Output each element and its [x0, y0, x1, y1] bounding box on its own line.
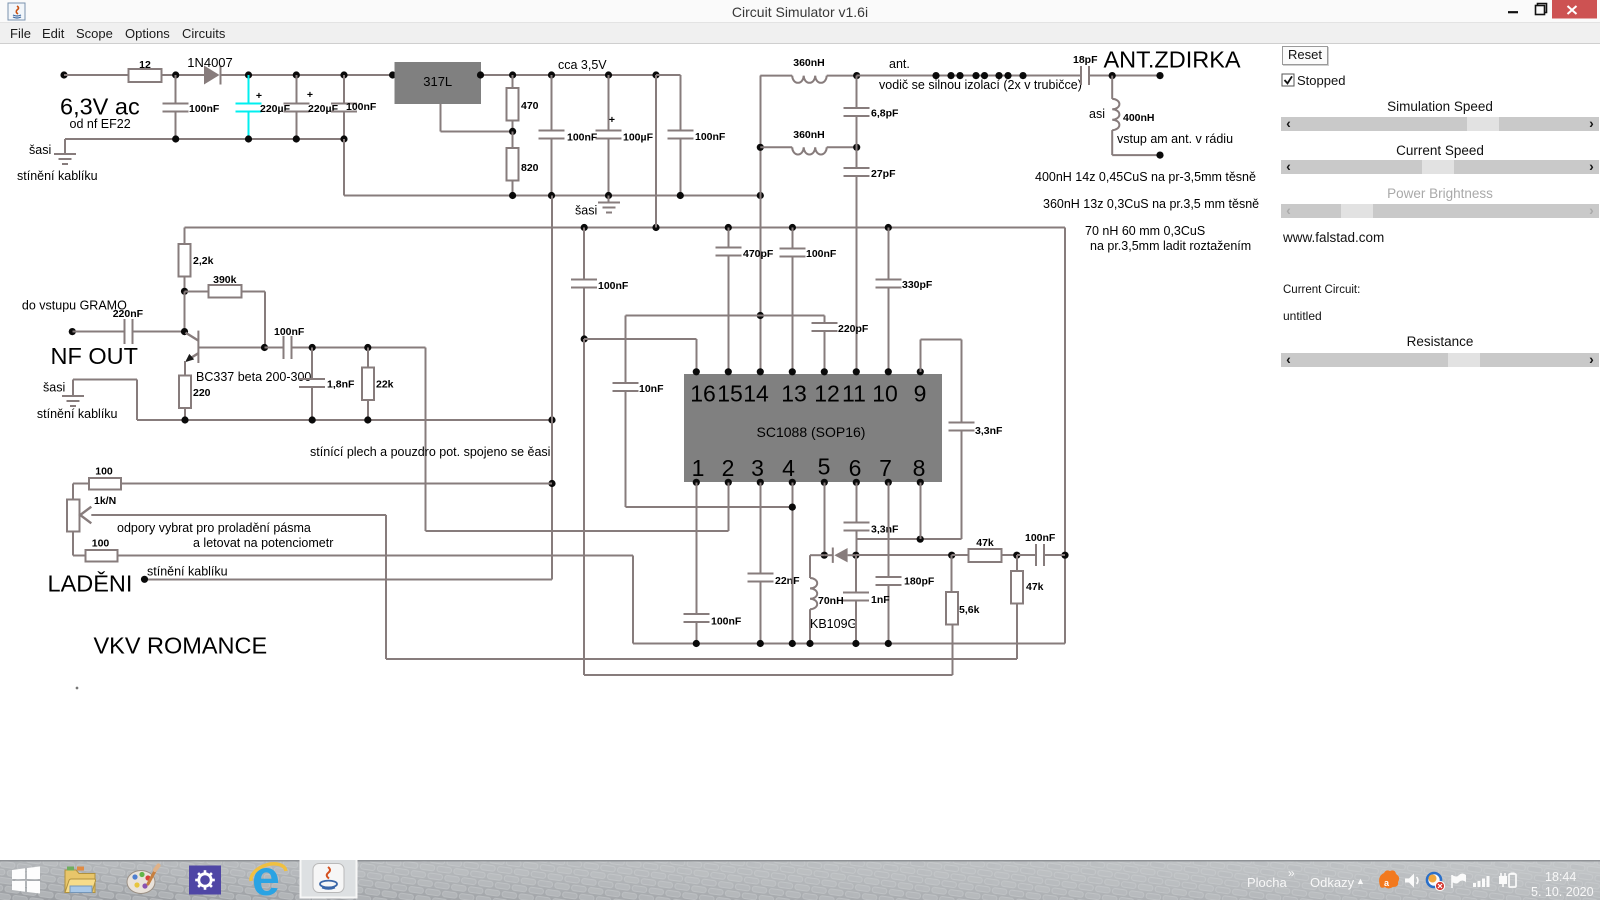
svg-text:12: 12: [139, 59, 151, 71]
svg-text:47k: 47k: [976, 537, 994, 549]
tray icon network bars: [1473, 876, 1490, 887]
svg-text:100nF: 100nF: [711, 616, 742, 628]
svg-text:vstup am ant. v rádiu: vstup am ant. v rádiu: [1117, 132, 1233, 146]
svg-text:LADĚNI: LADĚNI: [48, 571, 133, 597]
svg-text:stínění kablíku: stínění kablíku: [37, 407, 118, 421]
resistor 220 emitter: [179, 376, 211, 420]
capacitor 100nF rail bypass: [539, 75, 598, 196]
stray mark: [76, 687, 79, 690]
svg-text:330pF: 330pF: [902, 279, 933, 291]
node collector junction: [261, 344, 268, 351]
resistor 22k: [362, 348, 394, 421]
ground sasi input: [17, 139, 98, 183]
taskbar icon internet explorer: [251, 850, 286, 905]
svg-text:na pr.3,5mm ladit roztažením: na pr.3,5mm ladit roztažením: [1090, 239, 1251, 253]
wire diode to 317L input: [221, 71, 396, 78]
svg-text:470: 470: [521, 100, 539, 112]
taskbar: [0, 860, 1600, 900]
svg-text:10: 10: [872, 381, 898, 407]
capacitor 220pF: [811, 323, 869, 372]
capacitor 100nF third: [331, 75, 377, 139]
capacitor 100nF pin1: [683, 482, 742, 643]
svg-text:13: 13: [781, 381, 807, 407]
svg-text:5,6k: 5,6k: [959, 604, 980, 616]
tray icon avast: [1379, 870, 1399, 888]
svg-text:cca 3,5V: cca 3,5V: [558, 58, 607, 72]
capacitor 100nF output: [1017, 532, 1065, 566]
svg-text:6: 6: [849, 455, 862, 481]
resistor 47k first: [952, 537, 1021, 562]
capacitor 100nF input: [163, 75, 220, 139]
svg-text:400nH: 400nH: [1123, 112, 1155, 124]
wire pin2 to transistor out: [426, 348, 729, 532]
wire mid ground rail y195: [344, 139, 764, 199]
svg-text:1nF: 1nF: [871, 594, 890, 606]
svg-text:12: 12: [814, 381, 840, 407]
svg-text:22k: 22k: [376, 379, 394, 391]
svg-text:360nH: 360nH: [793, 129, 825, 141]
tray icon update circle: [1427, 873, 1445, 891]
resistor 2,2k: [179, 244, 214, 295]
taskbar icon settings tile: [189, 866, 221, 895]
svg-text:stínění kablíku: stínění kablíku: [17, 169, 98, 183]
svg-text:220: 220: [193, 387, 211, 399]
wire rail corner to 100nF: [656, 75, 680, 131]
capacitor 100nF coupling: [265, 326, 426, 359]
svg-text:100µF: 100µF: [623, 132, 654, 144]
svg-text:1k/N: 1k/N: [94, 495, 116, 507]
svg-text:100nF: 100nF: [598, 280, 629, 292]
wire pin9 loop: [920, 340, 961, 423]
svg-text:šasi: šasi: [43, 381, 65, 395]
node NF OUT terminal: [22, 299, 138, 370]
potentiometer 1k/N: [67, 484, 116, 556]
resistor 820: [507, 131, 539, 195]
svg-text:11: 11: [842, 381, 866, 407]
svg-text:820: 820: [521, 162, 539, 174]
wire pin5 to varicap: [823, 482, 825, 555]
svg-text:3,3nF: 3,3nF: [871, 524, 899, 536]
resistor 390k: [185, 274, 266, 348]
svg-text:100: 100: [92, 538, 110, 550]
svg-text:100nF: 100nF: [274, 326, 305, 338]
node ANT.ZDIRKA terminal: [1104, 47, 1241, 80]
svg-text:390k: 390k: [213, 274, 237, 286]
label VKV ROMANCE: [94, 633, 268, 659]
svg-text:7: 7: [879, 455, 892, 481]
op-amp U1 SC1088 body: [684, 374, 942, 482]
wire vertical antenna branch x760: [757, 76, 764, 372]
svg-text:3: 3: [751, 455, 764, 481]
svg-text:6,3V ac: 6,3V ac: [60, 94, 140, 120]
svg-text:5: 5: [818, 454, 831, 480]
inductor 360nH first: [760, 57, 856, 83]
taskbar icon file explorer: [65, 867, 96, 893]
capacitor 330pF: [875, 228, 933, 372]
note tuning text: [117, 521, 333, 550]
resistor 100 lower: [73, 538, 633, 562]
svg-text:9: 9: [914, 381, 927, 407]
inductor 400nH: [1089, 76, 1164, 159]
tray icon flag: [1452, 874, 1466, 889]
node 6,3V input terminal: [60, 71, 140, 131]
pin numbers top row: [690, 381, 926, 407]
svg-text:šasi: šasi: [575, 204, 597, 218]
svg-text:47k: 47k: [1026, 581, 1044, 593]
svg-text:360nH 13z 0,3CuS na pr.3,5 mm: 360nH 13z 0,3CuS na pr.3,5 mm těsně: [1043, 197, 1259, 211]
wire pin8 vertical: [919, 482, 921, 539]
wire 317L adj pin: [440, 104, 512, 132]
svg-text:+: +: [609, 114, 615, 126]
ground sasi preamp: [37, 380, 137, 421]
label ant: [879, 57, 1082, 92]
svg-text:do vstupu GRAMO: do vstupu GRAMO: [22, 299, 127, 313]
resistor 5,6k: [946, 555, 979, 624]
svg-text:360nH: 360nH: [793, 57, 825, 69]
svg-text:2,2k: 2,2k: [193, 255, 214, 267]
capacitor 220nF: [72, 308, 184, 344]
wire cap to pin16: [581, 335, 697, 371]
svg-text:ant.: ant.: [889, 57, 910, 71]
svg-text:400nH 14z 0,45CuS na pr-3,5mm: 400nH 14z 0,45CuS na pr-3,5mm těsně: [1035, 170, 1256, 184]
svg-text:14: 14: [743, 381, 769, 407]
capacitor 100nF left of IC: [571, 228, 629, 340]
svg-text:100nF: 100nF: [189, 103, 220, 115]
label vstup am ant: [1117, 132, 1233, 146]
resistor 100 upper: [73, 466, 552, 490]
resistor 470: [507, 75, 539, 135]
svg-text:100nF: 100nF: [346, 101, 377, 113]
svg-text:od nf EF22: od nf EF22: [70, 117, 131, 131]
svg-text:220nF: 220nF: [113, 308, 144, 320]
svg-text:220pF: 220pF: [838, 323, 869, 335]
wire R-12 to diode: [162, 71, 204, 78]
wire x584 long vertical: [584, 339, 953, 675]
capacitor 100nF rail right: [667, 131, 726, 196]
svg-text:10nF: 10nF: [639, 383, 664, 395]
svg-text:100nF: 100nF: [1025, 532, 1056, 544]
svg-text:220µF: 220µF: [308, 103, 339, 115]
wire antenna with posts: [857, 72, 1081, 79]
svg-text:KB109G: KB109G: [810, 617, 857, 631]
svg-text:100: 100: [95, 466, 113, 478]
capacitor 470pF: [715, 228, 774, 372]
capacitor 18pF: [1073, 54, 1098, 85]
diode 1N4007: [187, 55, 233, 85]
svg-text:220µF: 220µF: [260, 103, 291, 115]
node LADENI terminal: [48, 565, 228, 597]
svg-text:27pF: 27pF: [871, 168, 896, 180]
regulator 317L: [394, 62, 481, 104]
capacitor 100uF rail: [596, 75, 654, 196]
inductor 70nH: [810, 555, 844, 643]
svg-text:18pF: 18pF: [1073, 54, 1098, 66]
svg-text:asi: asi: [1089, 107, 1105, 121]
wire base bias: [184, 291, 186, 331]
wire right loop x1065: [1061, 228, 1068, 644]
svg-text:vodič se silnou izolací (2x v: vodič se silnou izolací (2x v trubičce): [879, 78, 1082, 92]
resistor 12: [129, 59, 162, 82]
resistor 47k second: [1011, 555, 1044, 659]
tray icon speaker: [1405, 874, 1418, 888]
wire varicap node to 47k: [856, 552, 955, 559]
svg-text:+: +: [307, 89, 313, 101]
svg-text:1N4007: 1N4007: [187, 55, 233, 70]
capacitor 22nF pin3: [747, 482, 800, 643]
svg-text:180pF: 180pF: [904, 576, 935, 588]
wire y315 line to 220pF: [625, 316, 824, 323]
svg-text:16: 16: [690, 381, 716, 407]
ground sasi mid: [575, 196, 620, 218]
wire ground rail preamp: [137, 416, 556, 423]
svg-text:100nF: 100nF: [567, 132, 598, 144]
capacitor 220uF second: [283, 75, 338, 139]
capacitor 10nF: [612, 316, 792, 508]
taskbar active java button: [301, 859, 357, 898]
svg-text:ANT.ZDIRKA: ANT.ZDIRKA: [1104, 47, 1241, 73]
pin numbers bottom row: [692, 454, 926, 482]
note coil winding texts: [1035, 170, 1259, 253]
wire vertical x656 rail link: [655, 75, 657, 228]
svg-text:a letovat na potenciometr: a letovat na potenciometr: [193, 536, 333, 550]
capacitor 3,3nF pin6: [843, 482, 899, 555]
wire 18pF to ANT terminal: [1089, 72, 1160, 79]
capacitor 6,8pF: [844, 72, 899, 120]
svg-text:3,3nF: 3,3nF: [975, 425, 1003, 437]
capacitor 100nF pin13: [779, 228, 837, 372]
svg-text:VKV ROMANCE: VKV ROMANCE: [94, 633, 268, 659]
wire x552 vertical ground link: [145, 196, 556, 580]
note shielding text: [310, 445, 550, 459]
svg-text:šasi: šasi: [29, 143, 51, 157]
svg-text:+: +: [256, 90, 262, 102]
transistor Q1 BC337: [181, 328, 312, 384]
diode KB109G varicap: [810, 548, 860, 632]
pin dots top: [693, 368, 924, 375]
capacitor 180pF pin7: [875, 482, 935, 643]
svg-text:8: 8: [913, 455, 926, 481]
tray icon battery plug: [1499, 873, 1516, 888]
taskbar icon paint: [127, 866, 159, 894]
start button windows logo: [12, 867, 40, 894]
wire 3,3nF bottom to right: [856, 536, 961, 543]
wire bottom ground rail: [633, 555, 1065, 647]
svg-text:stínění kablíku: stínění kablíku: [147, 565, 228, 579]
svg-text:22nF: 22nF: [775, 575, 800, 587]
svg-text:stínící plech a pouzdro pot. s: stínící plech a pouzdro pot. spojeno se …: [310, 445, 550, 459]
svg-text:6,8pF: 6,8pF: [871, 108, 899, 120]
wire rail to 2,2k: [184, 228, 186, 245]
svg-text:470pF: 470pF: [743, 248, 774, 260]
right control panel: [1280, 44, 1600, 856]
svg-text:70 nH 60 mm 0,3CuS: 70 nH 60 mm 0,3CuS: [1085, 224, 1205, 238]
svg-text:70nH: 70nH: [818, 595, 844, 607]
svg-text:NF OUT: NF OUT: [51, 343, 138, 369]
menu bar: [0, 23, 1600, 44]
capacitor 1nF: [843, 555, 890, 643]
window title bar: [0, 0, 1600, 23]
wire 3,5V rail from 317L: [477, 71, 660, 78]
capacitor 1,8nF: [299, 348, 355, 421]
capacitor 27pF: [844, 116, 896, 372]
svg-text:odpory vybrat pro proladění pá: odpory vybrat pro proladění pásma: [117, 521, 311, 535]
svg-text:1: 1: [692, 455, 705, 481]
wiper arrow: [80, 507, 386, 524]
svg-text:100nF: 100nF: [806, 248, 837, 260]
svg-text:BC337 beta 200-300: BC337 beta 200-300: [196, 370, 311, 384]
capacitor 3,3nF pin9: [948, 423, 1003, 540]
pin dots bottom: [693, 479, 924, 486]
svg-text:1,8nF: 1,8nF: [327, 379, 355, 391]
svg-text:317L: 317L: [423, 74, 452, 89]
wire ground bus of input filter: [65, 135, 348, 142]
wire long rail y227: [185, 224, 1066, 231]
capacitor 220uF selected (cyan): [236, 75, 291, 139]
label cca 3,5V: [558, 58, 607, 72]
wire pin4 vertical: [789, 482, 796, 643]
svg-text:4: 4: [782, 455, 795, 481]
svg-text:SC1088 (SOP16): SC1088 (SOP16): [757, 424, 866, 440]
svg-text:100nF: 100nF: [695, 131, 726, 143]
svg-text:2: 2: [722, 455, 735, 481]
svg-text:15: 15: [717, 381, 743, 407]
inductor 360nH second: [760, 129, 856, 155]
wire line A wiper return: [386, 515, 1017, 659]
wire input to R-12: [64, 74, 128, 76]
